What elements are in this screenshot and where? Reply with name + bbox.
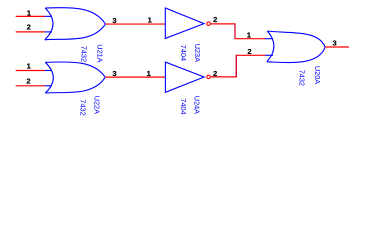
OR gate U20A body — [265, 31, 325, 63]
svg-text:2: 2 — [213, 15, 217, 24]
wire vertical jog (U24A to U20A) — [235, 55, 237, 77]
wire W2: input 2 to OR gate U21A — [16, 31, 45, 33]
wire W4: input 2 to OR gate U22A — [16, 85, 45, 87]
inverter U24A triangle — [165, 62, 204, 92]
inverter U24A bubble — [207, 75, 211, 79]
svg-text:7404: 7404 — [179, 98, 188, 114]
OR gate U21A body — [45, 8, 106, 40]
svg-text:3: 3 — [112, 69, 116, 78]
OR gate U22A body — [45, 62, 105, 93]
svg-text:2: 2 — [27, 23, 31, 32]
svg-text:U24A: U24A — [193, 96, 202, 114]
svg-text:7432: 7432 — [79, 99, 88, 115]
svg-text:U20A: U20A — [313, 66, 322, 84]
wire: U24A output right then up to U20A input 2 — [211, 55, 266, 77]
svg-text:7432: 7432 — [297, 70, 306, 86]
svg-text:U21A: U21A — [95, 44, 104, 62]
svg-text:U22A: U22A — [92, 96, 101, 114]
svg-text:2: 2 — [247, 47, 251, 56]
svg-text:2: 2 — [26, 77, 30, 86]
svg-text:7432: 7432 — [79, 46, 88, 62]
wire vertical jog (U23A to U20A) — [234, 24, 236, 39]
svg-text:3: 3 — [112, 16, 116, 25]
wire W3: input 1 to OR gate U22A — [16, 70, 45, 72]
inverter U23A triangle — [165, 8, 204, 38]
svg-text:3: 3 — [332, 39, 336, 48]
wire: U21A output to inverter U23A input — [105, 23, 165, 25]
wire: U20A output — [325, 46, 349, 48]
wire W1: input 1 to OR gate U21A — [16, 15, 45, 17]
inverter U23A bubble — [207, 22, 211, 26]
svg-text:7404: 7404 — [179, 45, 188, 61]
svg-text:U23A: U23A — [193, 44, 202, 62]
wire: U23A output right then down to U20A input 1 — [211, 24, 266, 39]
wire: U22A output to inverter U24A input — [105, 76, 165, 78]
